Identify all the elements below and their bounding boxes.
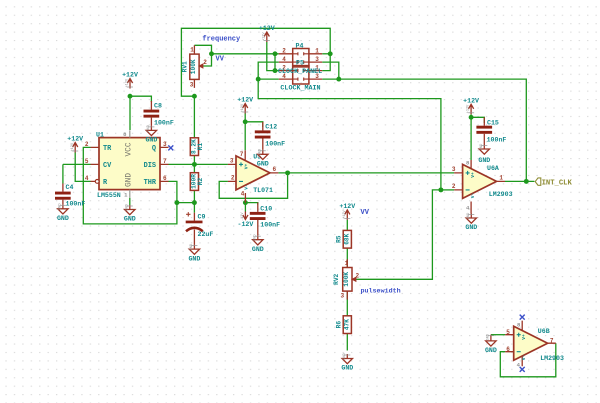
- wire P4 pin2 to P5 pin2 tie: [274, 54, 276, 71]
- svg-text:2: 2: [85, 141, 89, 148]
- reference label P5: [296, 60, 304, 67]
- value label U1 LM555N: [97, 192, 121, 199]
- svg-text:V+: V+: [470, 172, 476, 178]
- svg-text:GND: GND: [259, 149, 263, 155]
- wire C9 top lead: [193, 203, 195, 213]
- reference label P4: [296, 43, 304, 50]
- pin number U6A 1: [499, 175, 503, 182]
- svg-text:100nF: 100nF: [66, 201, 86, 208]
- svg-text:GND: GND: [190, 244, 194, 250]
- capacitor C8: [144, 101, 160, 126]
- pin number P5 4: [282, 73, 286, 80]
- pin number P4 1: [315, 48, 319, 55]
- value label C4: [66, 184, 74, 191]
- svg-text:3: 3: [452, 166, 456, 173]
- pin U1 8 VCC stub: [129, 130, 131, 137]
- svg-text:VCC: VCC: [126, 142, 134, 156]
- op-amp U6A LM2903: [454, 160, 505, 214]
- wire net VV row to P4 pin2: [212, 53, 279, 55]
- svg-text:R5: R5: [336, 235, 343, 243]
- svg-text:GND: GND: [188, 255, 200, 262]
- net label frequency: [202, 35, 241, 43]
- wire R1 bottom to R2 top: [193, 156, 195, 173]
- wire U6B pin5 to GND: [491, 334, 505, 336]
- pin name GND: [126, 173, 134, 187]
- svg-text:+12V: +12V: [126, 78, 130, 87]
- capacitor C10: [250, 203, 266, 236]
- junction P5 pin4 node: [256, 77, 261, 82]
- wire V+ node to C15: [471, 117, 484, 123]
- value label U6A LM2903: [489, 191, 513, 198]
- pin number P4 4: [282, 56, 286, 63]
- value label R2 100R: [190, 174, 197, 189]
- ground at C8: [145, 125, 157, 144]
- pin name TR: [103, 145, 112, 153]
- svg-text:LM555N: LM555N: [97, 192, 121, 199]
- wire DIS node row: [169, 163, 228, 165]
- ground at 555 pin1: [124, 204, 136, 222]
- pin number P4 2: [282, 48, 286, 55]
- svg-text:GND: GND: [252, 246, 264, 253]
- value label U6B LM2903: [540, 355, 564, 362]
- ground at U6A pin4: [465, 213, 477, 232]
- svg-text:V-: V-: [470, 193, 476, 199]
- ground at C15: [478, 144, 490, 164]
- svg-text:100nF: 100nF: [487, 137, 507, 144]
- svg-text:GND: GND: [478, 157, 490, 164]
- svg-text:-12V: -12V: [237, 221, 253, 228]
- svg-text:+12V: +12V: [71, 142, 75, 151]
- value label C4 100nF: [66, 201, 86, 208]
- svg-text:LM2903: LM2903: [540, 355, 564, 362]
- svg-text:GND: GND: [126, 173, 134, 187]
- pin number RV2 1: [345, 260, 349, 267]
- svg-text:-12V: -12V: [241, 212, 245, 221]
- svg-text:GND: GND: [59, 204, 63, 210]
- op-amp U6B LM2903: [505, 321, 556, 367]
- svg-text:GND: GND: [343, 353, 347, 359]
- junction RV1 R1 node: [192, 94, 197, 99]
- svg-text:1: 1: [499, 175, 503, 182]
- wire CV to C4: [63, 163, 91, 165]
- svg-text:+12V: +12V: [67, 136, 83, 143]
- capacitor C12: [255, 122, 271, 150]
- value label C15: [487, 119, 499, 126]
- pin name THR: [144, 179, 157, 187]
- svg-text:CV: CV: [103, 162, 112, 170]
- svg-text:+12V: +12V: [339, 203, 355, 210]
- svg-text:TL071: TL071: [253, 187, 273, 194]
- wire +12V to R pin: [75, 153, 90, 182]
- power +12V at R5: [339, 203, 355, 220]
- svg-text:V+: V+: [521, 334, 527, 340]
- svg-text:R2: R2: [197, 178, 204, 186]
- wire CLOCK net to INT_CLK node: [322, 79, 526, 181]
- wire P4 pin3 to P5 pin3 tie: [322, 62, 339, 79]
- svg-text:U6B: U6B: [538, 328, 550, 335]
- no-connect U6B pin4: [520, 367, 525, 372]
- svg-text:frequency: frequency: [202, 35, 241, 43]
- svg-text:1: 1: [345, 260, 349, 267]
- wire C4 top lead: [62, 164, 64, 183]
- svg-text:1: 1: [315, 48, 319, 55]
- pins U1 left stubs: [91, 147, 100, 183]
- svg-text:2: 2: [356, 272, 360, 279]
- ground at R6: [341, 353, 353, 372]
- wire TL071 out to U6A pin3: [278, 172, 454, 174]
- wire 555 GND pin lead: [129, 198, 131, 205]
- value label RV1 100K: [190, 59, 197, 74]
- pin number U6A 8: [466, 160, 470, 167]
- reference label U5: [253, 154, 261, 161]
- pin number RV1 3: [190, 82, 194, 89]
- reference label U1: [96, 132, 104, 139]
- svg-text:7: 7: [550, 338, 554, 345]
- wire +12V to U6A V+ node: [470, 114, 472, 160]
- svg-text:100K: 100K: [343, 272, 350, 287]
- junction U6A pin2 node: [438, 187, 443, 192]
- wire R6 to GND: [346, 334, 348, 351]
- no-connect U1 pin3: [168, 145, 173, 150]
- resistor R1: [190, 138, 198, 156]
- net label CLOCK_MAIN: [280, 85, 320, 93]
- svg-text:+12V: +12V: [259, 25, 275, 32]
- wire U6A pin2 to RV2 wiper: [441, 189, 454, 191]
- net label VV at RV1: [216, 55, 225, 63]
- svg-text:2: 2: [282, 48, 286, 55]
- wire R2 bottom to THR node: [193, 190, 195, 202]
- pin number RV1 1: [190, 47, 194, 54]
- pin U1 1 GND stub: [129, 190, 131, 198]
- pin name R: [103, 179, 108, 187]
- pin number U5 7: [240, 151, 244, 158]
- svg-text:C10: C10: [260, 206, 272, 213]
- wire +12V to R5: [346, 220, 348, 231]
- pin number U6A 3: [452, 166, 456, 173]
- junction TL071 V- node: [243, 200, 248, 205]
- svg-text:+12V: +12V: [122, 72, 138, 79]
- svg-text:100nF: 100nF: [154, 119, 174, 126]
- pin name Q: [152, 145, 156, 153]
- value label C12: [265, 124, 277, 131]
- pin number U6B 4: [517, 361, 521, 368]
- junction 555 VCC node: [128, 94, 133, 99]
- value label C15 100nF: [487, 137, 507, 144]
- wire RV1 pin1 to wiper tie: [194, 45, 211, 66]
- pin number P5 2: [282, 64, 286, 71]
- pin number U1 6: [163, 175, 167, 182]
- svg-text:V-: V-: [244, 184, 250, 190]
- junction THR node left: [174, 200, 179, 205]
- junction TL071 out node: [285, 170, 290, 175]
- svg-text:+12V: +12V: [343, 209, 347, 218]
- hierarchical label INT_CLK: [535, 178, 572, 187]
- pin number U1 4: [85, 175, 89, 182]
- junction P5 pin2 node: [273, 68, 278, 73]
- svg-text:GND: GND: [465, 224, 477, 231]
- reference label U6B: [538, 328, 550, 335]
- value label C8 100nF: [154, 119, 174, 126]
- pin number U1 8: [123, 131, 127, 138]
- svg-text:U1: U1: [96, 132, 104, 139]
- potentiometer RV1: [190, 45, 203, 88]
- wire P5 pin4 to U6A pin2: [258, 79, 441, 190]
- svg-text:GND: GND: [257, 161, 269, 168]
- wire pulsewidth net: [357, 190, 441, 279]
- net label pulsewidth: [361, 288, 401, 296]
- junction DIS node: [192, 162, 197, 167]
- svg-text:3: 3: [315, 56, 319, 63]
- pin number U6B 8: [517, 321, 521, 328]
- op-amp U5 input polarity marks: [239, 162, 250, 189]
- op-amp U6B input polarity marks: [517, 333, 527, 361]
- svg-text:3: 3: [230, 158, 234, 165]
- pin number P4 3: [315, 56, 319, 63]
- svg-text:P5: P5: [296, 60, 304, 67]
- svg-text:LM2903: LM2903: [489, 191, 513, 198]
- value label C8: [154, 103, 162, 110]
- capacitor C4: [55, 184, 71, 205]
- pin number U1 2: [85, 141, 89, 148]
- svg-text:GND: GND: [126, 204, 130, 210]
- svg-text:C9: C9: [198, 213, 206, 220]
- pin number RV2 3: [341, 293, 345, 300]
- capacitor C9: [186, 212, 203, 245]
- pin number U6A 4: [466, 205, 470, 212]
- svg-text:3: 3: [341, 293, 345, 300]
- junction THR node right: [192, 200, 197, 205]
- reference label R5: [336, 235, 343, 243]
- svg-text:7: 7: [240, 151, 244, 158]
- svg-text:100nF: 100nF: [260, 222, 280, 229]
- ground at C9: [188, 244, 200, 262]
- value label C10 100nF: [260, 222, 280, 229]
- svg-text:GND: GND: [341, 365, 353, 372]
- connector P5: [279, 66, 322, 84]
- svg-text:GND: GND: [254, 234, 258, 240]
- resistor R6: [343, 316, 351, 334]
- svg-text:47K: 47K: [343, 319, 350, 330]
- svg-text:3: 3: [190, 82, 194, 89]
- value label R1 8.2K: [190, 139, 197, 154]
- pin number U5 3: [230, 158, 234, 165]
- power +12V at 555 VCC: [122, 72, 138, 89]
- junction P4 pin1 node: [328, 51, 333, 56]
- pin number U6A 2: [452, 183, 456, 190]
- power +12V at C15: [463, 97, 479, 114]
- svg-text:V+: V+: [244, 164, 250, 170]
- svg-text:+12V: +12V: [463, 97, 479, 104]
- reference label R2: [197, 178, 204, 186]
- pin number U6B 5: [506, 329, 510, 336]
- net label VV at R5: [361, 209, 370, 217]
- pin number U6B 6: [506, 346, 510, 353]
- reference label U6A: [487, 165, 499, 172]
- value label R5 68K: [343, 233, 350, 244]
- svg-text:R1: R1: [197, 143, 204, 151]
- svg-text:C4: C4: [66, 184, 74, 191]
- wire V+ node to C12: [245, 122, 263, 127]
- no-connect U6B pin8: [520, 315, 525, 320]
- svg-text:GND: GND: [480, 144, 484, 150]
- svg-text:C15: C15: [487, 119, 499, 126]
- wire P4 pin4 to P5 pin4 tie: [258, 62, 279, 79]
- svg-text:CLOCK_MAIN: CLOCK_MAIN: [280, 85, 320, 93]
- wire +12V to TL071 V+ node: [244, 114, 246, 151]
- capacitor C15: [476, 117, 492, 144]
- svg-text:VV: VV: [361, 209, 370, 217]
- junction VV node: [209, 51, 214, 56]
- wire THR to TR loop: [83, 147, 177, 224]
- resistor R2: [190, 173, 198, 191]
- svg-text:GND: GND: [487, 334, 491, 340]
- pin number P5 3: [315, 73, 319, 80]
- svg-text:GND: GND: [57, 215, 69, 222]
- svg-text:Q: Q: [152, 145, 156, 153]
- svg-text:TR: TR: [103, 145, 112, 153]
- svg-text:6: 6: [273, 166, 277, 173]
- value label C9 22uF: [198, 231, 214, 238]
- svg-text:DIS: DIS: [144, 162, 156, 170]
- pin number RV2 2: [356, 272, 360, 279]
- svg-text:+12V: +12V: [467, 104, 471, 113]
- svg-text:GND: GND: [485, 347, 497, 354]
- svg-text:C8: C8: [154, 103, 162, 110]
- wire R5 to RV2: [346, 248, 348, 267]
- wire top rail R1 node to P4 pin1: [181, 28, 330, 96]
- wire THR node tie: [177, 202, 195, 204]
- svg-text:7: 7: [163, 158, 167, 165]
- net label CLOCK_PANEL: [278, 68, 322, 76]
- value label U5 TL071: [253, 187, 273, 194]
- wire U6A out to INT_CLK: [505, 180, 534, 182]
- junction U6A V+ node: [469, 115, 474, 120]
- svg-text:68K: 68K: [343, 233, 350, 244]
- ground at C4: [57, 204, 69, 223]
- op-amp U5 TL071: [228, 150, 279, 202]
- svg-text:6: 6: [506, 346, 510, 353]
- junction P4 pin2 node: [273, 51, 278, 56]
- value label C12 100nF: [265, 141, 285, 148]
- pins U1 right stubs: [160, 147, 169, 181]
- wire +12V drop to P5 pin2: [267, 42, 279, 71]
- svg-text:100K: 100K: [190, 59, 197, 74]
- value label R6 47K: [343, 319, 350, 330]
- reference label R6: [336, 321, 343, 329]
- wire R1 top: [193, 96, 195, 137]
- value label C10: [260, 206, 272, 213]
- svg-text:1: 1: [190, 47, 194, 54]
- svg-text:GND: GND: [145, 137, 157, 144]
- wire TL071 V- node: [244, 203, 246, 212]
- svg-text:5: 5: [85, 158, 89, 165]
- svg-text:2: 2: [452, 183, 456, 190]
- ground at C12: [257, 149, 269, 168]
- svg-text:22uF: 22uF: [198, 231, 214, 238]
- pin name CV: [103, 162, 112, 170]
- pin number U5 2: [231, 175, 235, 182]
- wire RV2 to R6: [346, 291, 348, 316]
- svg-text:3: 3: [163, 141, 167, 148]
- svg-text:4: 4: [282, 56, 286, 63]
- svg-text:GND: GND: [124, 216, 136, 223]
- junction P5 pin3 node: [336, 77, 341, 82]
- svg-text:U6A: U6A: [487, 165, 499, 172]
- reference label RV2: [333, 273, 340, 284]
- svg-text:INT_CLK: INT_CLK: [542, 179, 573, 187]
- svg-text:P4: P4: [296, 43, 304, 50]
- svg-text:RV2: RV2: [333, 273, 340, 284]
- connector P4: [279, 49, 322, 67]
- svg-text:+12V: +12V: [241, 103, 245, 112]
- ground at U6B pin5: [485, 334, 497, 354]
- wire U6B feedback: [500, 343, 556, 377]
- wire TL071 feedback: [219, 173, 287, 198]
- op-amp U6A input polarity marks: [466, 171, 476, 198]
- junction INT_CLK node: [524, 179, 529, 184]
- resistor R5: [343, 230, 351, 248]
- junction TL071 V+ node: [243, 119, 248, 124]
- reference label R1: [197, 143, 204, 151]
- IC U1 LM555N body: [99, 138, 160, 190]
- svg-text:6: 6: [163, 175, 167, 182]
- svg-text:CLOCK_PANEL: CLOCK_PANEL: [278, 68, 322, 76]
- reference label RV1: [181, 61, 188, 72]
- pin name VCC: [126, 142, 134, 156]
- svg-text:V-: V-: [521, 355, 527, 361]
- pin number U6B 7: [550, 338, 554, 345]
- wire VCC rail to C8: [130, 96, 151, 102]
- potentiometer RV2: [343, 259, 357, 299]
- power +12V at TL071: [237, 97, 253, 114]
- svg-text:RV1: RV1: [181, 61, 188, 72]
- svg-text:VV: VV: [216, 55, 225, 63]
- power -12V at TL071: [237, 212, 253, 229]
- pin number U1 3: [163, 141, 167, 148]
- svg-text:THR: THR: [144, 179, 157, 187]
- wire V- node to C10: [245, 203, 257, 205]
- pin number U5 6: [273, 166, 277, 173]
- svg-text:4: 4: [85, 175, 89, 182]
- ground at C10: [252, 234, 264, 253]
- power +12V at 555 reset: [67, 136, 83, 153]
- svg-text:R6: R6: [336, 321, 343, 329]
- pin number U1 7: [163, 158, 167, 165]
- svg-text:5: 5: [506, 329, 510, 336]
- svg-text:C12: C12: [265, 124, 277, 131]
- svg-text:GND: GND: [147, 125, 151, 131]
- pin number U1 5: [85, 158, 89, 165]
- pin name DIS: [144, 162, 156, 170]
- wire +12V rail to 555 VCC: [129, 96, 131, 130]
- wire P4 pin1 stub join: [322, 53, 330, 55]
- pin number P5 1: [315, 64, 319, 71]
- pin number U5 4: [241, 191, 245, 198]
- svg-text:2: 2: [203, 59, 207, 66]
- svg-text:GND: GND: [467, 213, 471, 219]
- power +12V at P4: [259, 25, 275, 42]
- svg-text:+12V: +12V: [237, 97, 253, 104]
- svg-text:2: 2: [231, 175, 235, 182]
- svg-text:100nF: 100nF: [265, 141, 285, 148]
- svg-text:+12V: +12V: [262, 32, 266, 41]
- pin number U1 1: [124, 191, 128, 198]
- value label RV2 100K: [343, 272, 350, 287]
- svg-text:4: 4: [241, 191, 245, 198]
- pin number RV1 2: [203, 59, 207, 66]
- svg-text:pulsewidth: pulsewidth: [361, 288, 401, 296]
- value label C9: [198, 213, 206, 220]
